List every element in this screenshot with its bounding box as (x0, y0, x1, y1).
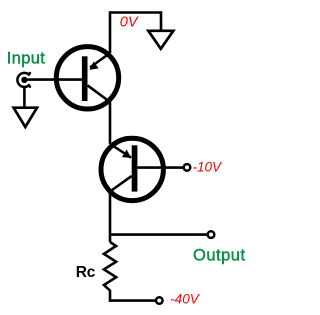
ground (input) (14, 108, 37, 127)
wire Q2 base to -10V terminal (137, 166, 183, 169)
wire input to base of Q1 (24, 78, 84, 81)
input terminal (17, 73, 30, 87)
ground (0V rail) (148, 31, 173, 49)
resistor Rc (104, 242, 116, 291)
transistor Q1 (PNP, top) (56, 47, 118, 109)
wire Q1 emitter up to 0V rail (109, 11, 112, 53)
svg-text:-10V: -10V (193, 159, 224, 174)
svg-text:Rc: Rc (76, 264, 96, 281)
terminal -40V (156, 297, 163, 304)
wire top horizontal 0V rail (110, 11, 161, 14)
wire input terminal down to ground (23, 86, 26, 108)
wire Q1 collector down to Q2 emitter (109, 101, 112, 144)
terminal Output (208, 231, 215, 238)
svg-text:Output: Output (193, 247, 246, 265)
wire Q2 collector down to output node (109, 191, 112, 243)
wire top right drop to ground (160, 11, 163, 31)
wire output node to terminal (110, 233, 207, 236)
svg-text:-40V: -40V (170, 291, 201, 306)
svg-text:0V: 0V (120, 14, 139, 30)
wire resistor bottom to -40V terminal (109, 290, 156, 301)
svg-text:Input: Input (7, 49, 46, 67)
terminal -10V (184, 164, 191, 171)
transistor Q2 (PNP, bottom) (101, 138, 163, 200)
